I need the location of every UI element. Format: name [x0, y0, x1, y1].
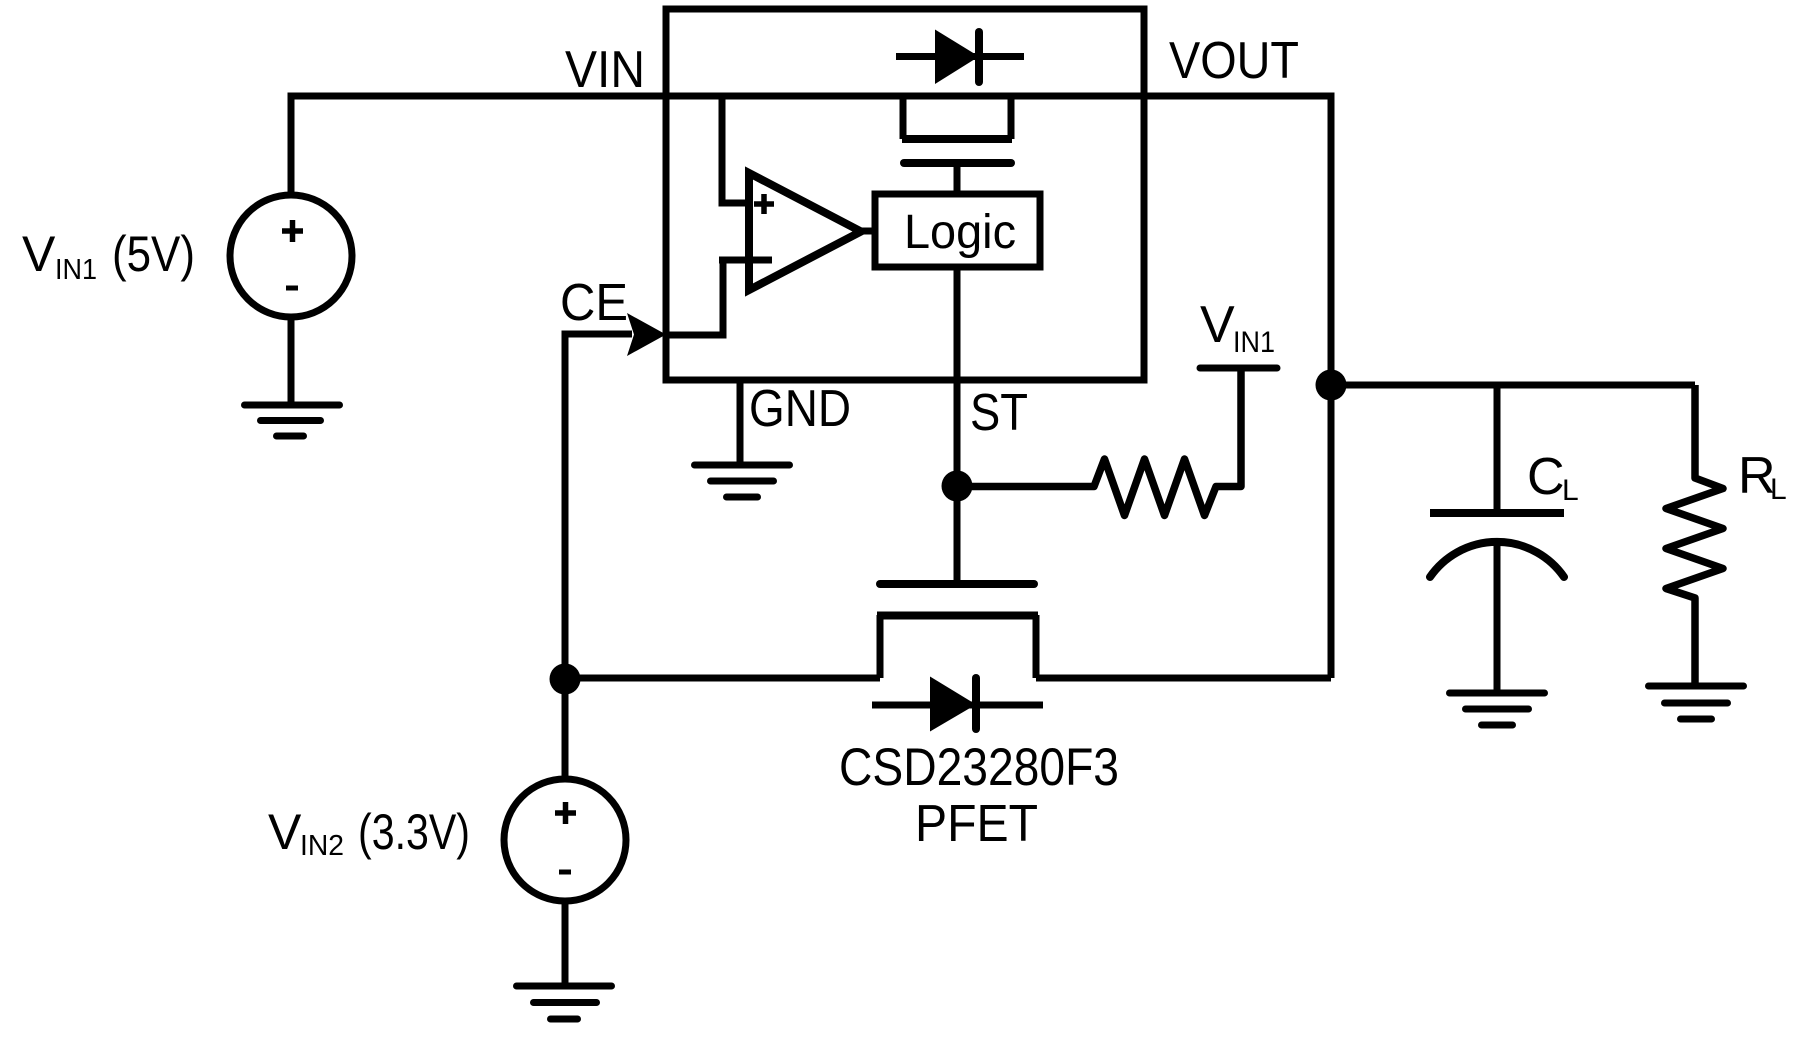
svg-text:L: L [1770, 473, 1787, 506]
transistor Q1 (internal PFET) source stub [900, 96, 907, 139]
transistor Q2 source stub [877, 615, 884, 678]
ground (V_IN2) [517, 986, 612, 1019]
wire VIN to op-amp non-inverting input [722, 99, 746, 203]
wire bottom net right: Q2 drain stub to VOUT vertical [1036, 675, 1331, 682]
wire bottom net left: junction to Q2 source stub [565, 675, 880, 682]
V_IN2 plus sign [555, 810, 576, 816]
capacitor C_L lower lead [1494, 543, 1501, 694]
svg-text:IN2: IN2 [300, 830, 344, 862]
transistor Q1 drain stub [1008, 96, 1015, 139]
svg-text:VOUT: VOUT [1169, 32, 1299, 90]
body diode D1 triangle [935, 30, 979, 85]
body diode D2 triangle [930, 677, 976, 732]
Logic block [875, 194, 1040, 267]
svg-text:ST: ST [970, 384, 1028, 442]
op-amp inverting input stub (minus) [719, 257, 772, 264]
V_IN1 minus sign [286, 286, 298, 291]
ST pin wire [954, 267, 961, 486]
svg-text:Logic: Logic [904, 206, 1016, 259]
svg-text:GND: GND [749, 380, 851, 438]
voltage source V_IN2 circle [504, 779, 626, 901]
body diode D2 lead [872, 702, 1043, 709]
V_IN2 minus sign [559, 870, 571, 875]
op-amp U2 triangle [749, 173, 861, 290]
transistor Q1 channel bar [902, 135, 1012, 143]
resistor R1 pull-up zigzag and wire to VIN1 rail [957, 368, 1241, 516]
wire op-amp output to Logic [857, 228, 875, 235]
wire CE net: horizontal to arrow, vertical down to junction, down to V_IN2 [565, 334, 632, 780]
wire Q2 gate from ST node [954, 486, 961, 584]
body diode D2 cathode bar [972, 678, 980, 729]
GND pin wire [737, 380, 744, 466]
capacitor C_L lead from load wire [1494, 385, 1501, 510]
wire VIN net: from source corner across top to VOUT corner and down [291, 96, 1331, 678]
svg-text:(5V): (5V) [112, 226, 195, 282]
VIN1 rail bar [1200, 365, 1277, 372]
resistor R_L vertical zigzag [1666, 385, 1723, 686]
svg-text:VIN: VIN [565, 41, 645, 99]
wire V_IN2 to ground [562, 901, 569, 987]
capacitor C_L curved plate [1430, 542, 1564, 577]
capacitor C_L top plate [1430, 509, 1564, 517]
voltage source V_IN1 circle [230, 195, 352, 317]
IC box U1 [666, 9, 1144, 380]
ground (R_L) [1649, 686, 1744, 719]
wire V_IN1 to ground [288, 317, 295, 406]
ground (IC GND pin) [695, 465, 790, 497]
wire Q1 gate to Logic [954, 163, 961, 194]
svg-text:V: V [1200, 296, 1235, 354]
node ST junction dot [942, 471, 973, 502]
svg-text:(3.3V): (3.3V) [358, 804, 470, 860]
svg-text:V: V [268, 804, 302, 860]
svg-text:V: V [22, 226, 56, 282]
V_IN1 plus sign [282, 228, 303, 234]
svg-text:C: C [1527, 448, 1565, 506]
svg-text:CE: CE [560, 274, 628, 332]
node junction dot (CE / V_IN2 / Q2 source) [550, 664, 581, 695]
op-amp plus sign [754, 201, 774, 207]
body diode D1 cathode bar [975, 32, 983, 82]
svg-text:IN1: IN1 [55, 254, 97, 286]
CE arrowhead into box [627, 313, 666, 356]
svg-text:CSD23280F3: CSD23280F3 [839, 738, 1119, 797]
svg-text:L: L [1562, 474, 1579, 507]
transistor Q2 channel bar [877, 612, 1038, 620]
svg-text:PFET: PFET [915, 795, 1038, 853]
transistor Q2 gate bar [880, 580, 1034, 588]
transistor Q1 gate bar [904, 159, 1011, 167]
ground (V_IN1) [245, 405, 340, 436]
body diode D1 lead [896, 53, 1024, 60]
wire load net: VOUT node to C_L and R_L [1331, 382, 1695, 389]
node VOUT junction dot [1316, 370, 1347, 401]
svg-text:IN1: IN1 [1233, 326, 1275, 359]
ground (C_L) [1450, 693, 1545, 725]
wire CE inside box to op-amp inverting input [666, 260, 723, 335]
transistor Q2 drain stub [1033, 615, 1040, 678]
